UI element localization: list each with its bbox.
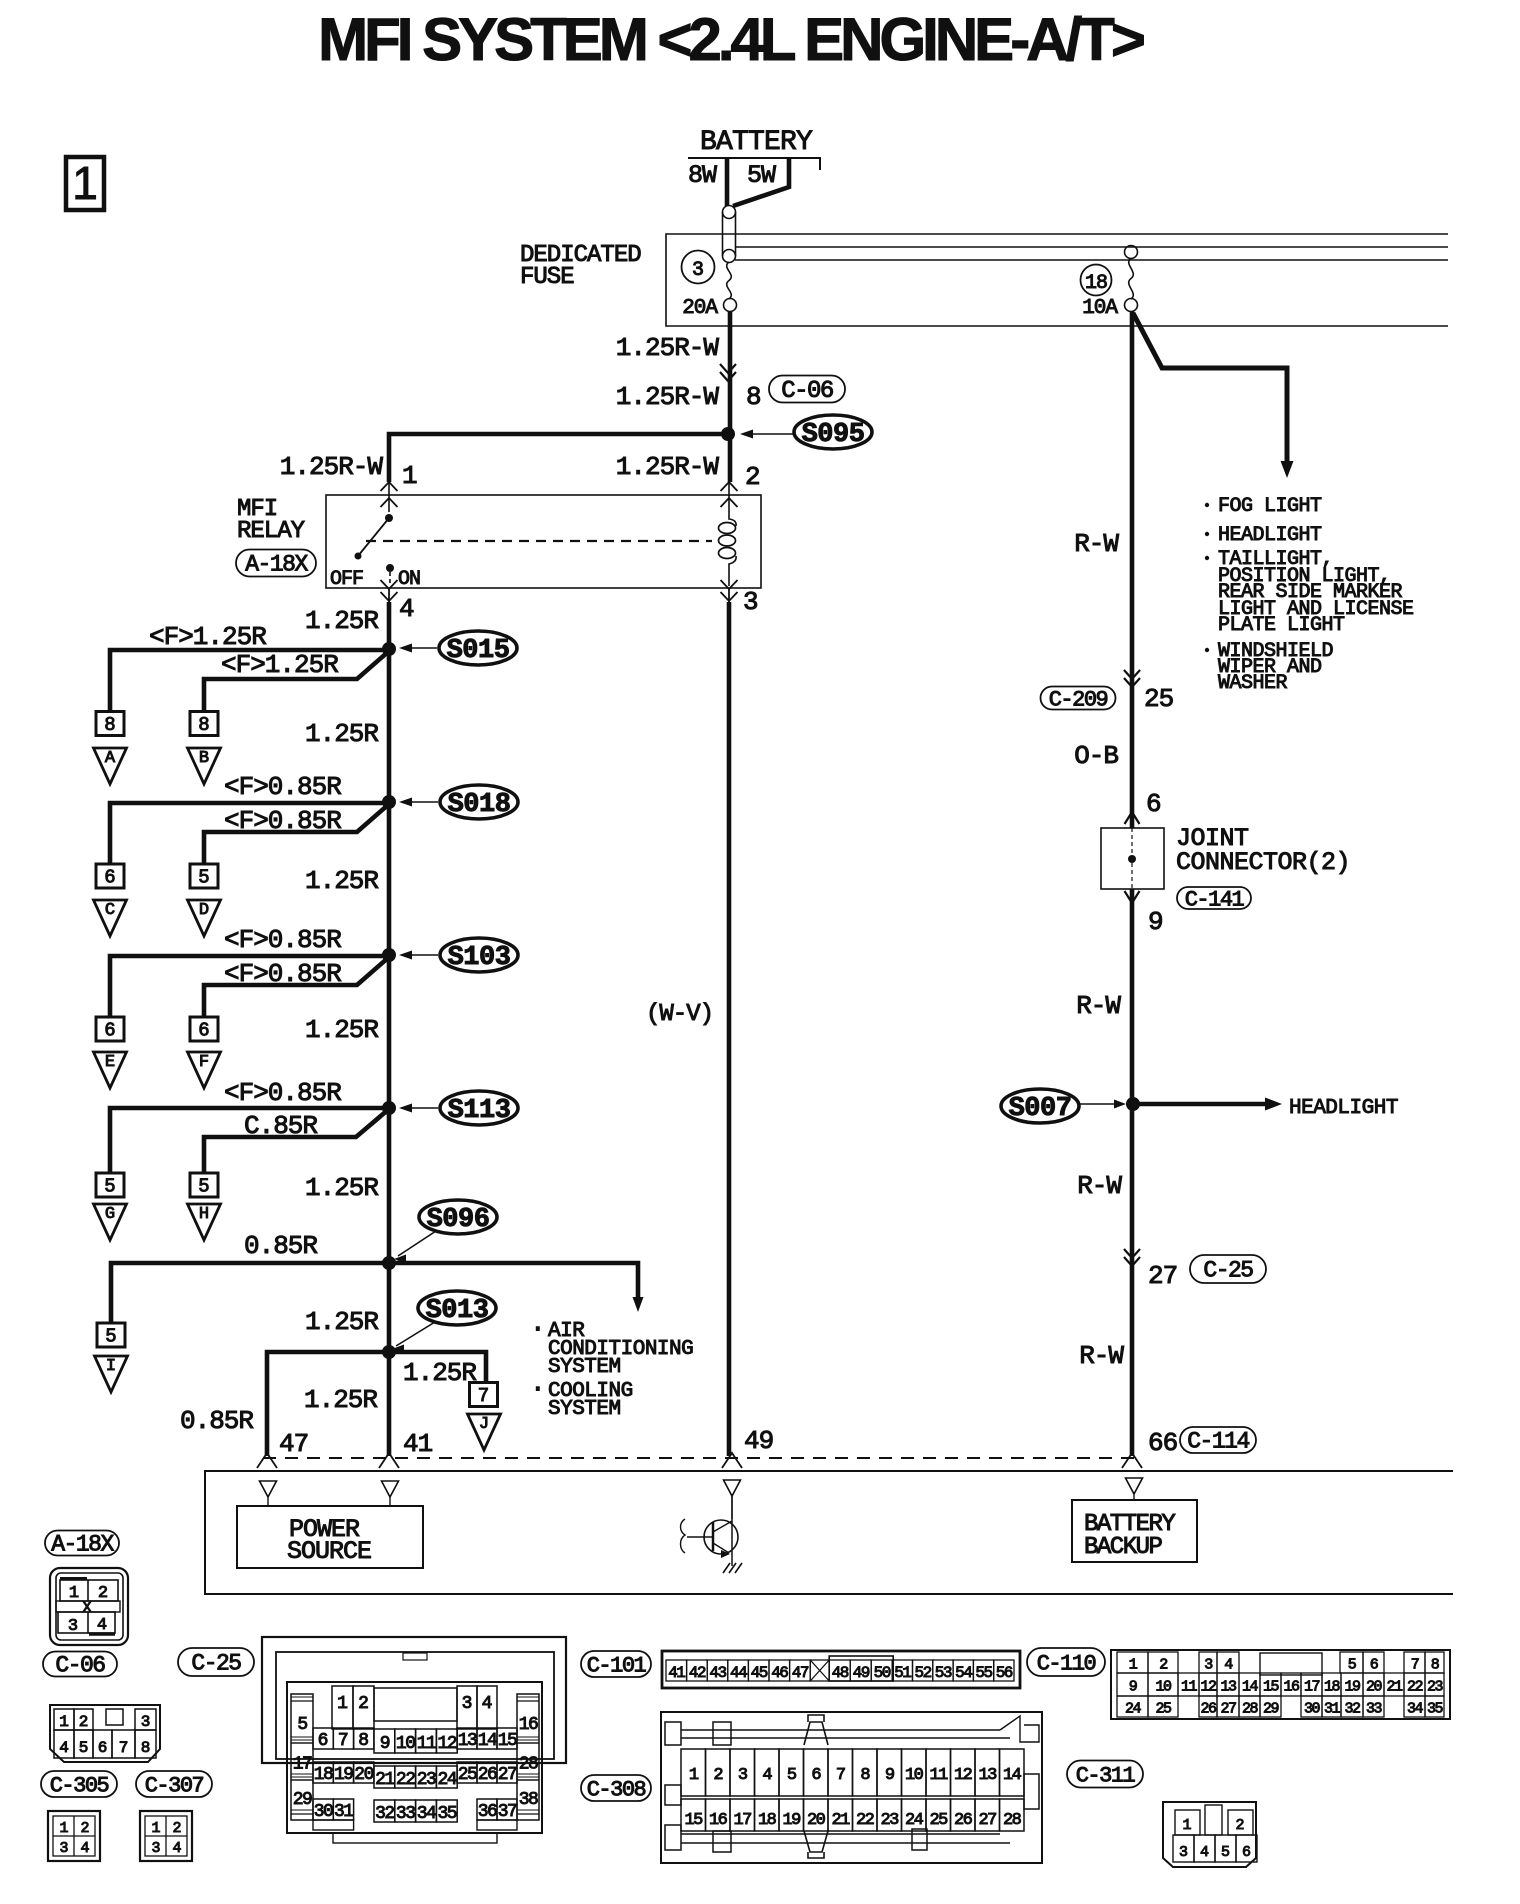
svg-text:1.25R: 1.25R: [305, 1307, 378, 1337]
svg-text:9: 9: [1148, 907, 1164, 937]
svg-text:28: 28: [1003, 1811, 1022, 1830]
svg-text:C-25: C-25: [191, 1651, 241, 1677]
svg-text:7: 7: [1411, 1657, 1419, 1674]
svg-text:G: G: [105, 1205, 115, 1224]
svg-text:51: 51: [894, 1664, 911, 1682]
svg-text:FUSE: FUSE: [520, 264, 574, 291]
svg-text:2: 2: [1235, 1817, 1244, 1834]
svg-text:<F>1.25R: <F>1.25R: [149, 622, 266, 652]
svg-text:6: 6: [104, 1020, 115, 1042]
svg-text:5: 5: [1221, 1844, 1230, 1861]
svg-text:C-308: C-308: [587, 1777, 646, 1802]
svg-text:34: 34: [1407, 1701, 1424, 1718]
svg-text:18: 18: [1085, 272, 1107, 295]
svg-text:11: 11: [1181, 1679, 1198, 1696]
svg-text:2: 2: [172, 1820, 181, 1837]
svg-text:X: X: [82, 1599, 92, 1617]
svg-text:46: 46: [771, 1664, 788, 1682]
svg-text:8W: 8W: [688, 161, 717, 190]
svg-text:4: 4: [80, 1840, 89, 1857]
svg-text:S013: S013: [426, 1296, 489, 1326]
svg-text:·: ·: [530, 1314, 546, 1344]
svg-text:3: 3: [151, 1840, 160, 1857]
svg-text:C-06: C-06: [781, 378, 833, 405]
svg-text:20A: 20A: [682, 297, 718, 320]
svg-text:15: 15: [498, 1731, 517, 1751]
svg-text:F: F: [199, 1053, 209, 1072]
svg-text:10: 10: [1155, 1679, 1172, 1696]
svg-text:66: 66: [1148, 1428, 1177, 1458]
svg-text:RELAY: RELAY: [237, 518, 305, 545]
svg-text:<F>1.25R: <F>1.25R: [221, 650, 338, 680]
svg-text:31: 31: [1324, 1701, 1341, 1718]
svg-text:4: 4: [172, 1840, 181, 1857]
svg-text:19: 19: [334, 1765, 353, 1785]
svg-text:32: 32: [1344, 1701, 1360, 1718]
svg-text:17: 17: [293, 1755, 312, 1775]
svg-text:ON: ON: [398, 568, 420, 591]
svg-text:45: 45: [751, 1664, 768, 1682]
svg-text:1: 1: [59, 1713, 69, 1731]
svg-text:11: 11: [929, 1766, 948, 1785]
svg-text:21: 21: [1386, 1679, 1403, 1696]
svg-text:C-209: C-209: [1049, 687, 1108, 712]
svg-text:35: 35: [437, 1804, 456, 1824]
svg-text:0.85R: 0.85R: [244, 1231, 317, 1261]
svg-text:54: 54: [955, 1664, 972, 1682]
svg-text:27: 27: [498, 1765, 517, 1785]
svg-text:1.25R-W: 1.25R-W: [616, 333, 720, 363]
svg-text:9: 9: [380, 1734, 390, 1754]
svg-text:14: 14: [478, 1731, 497, 1751]
svg-text:1.25R: 1.25R: [305, 866, 378, 896]
svg-text:<F>0.85R: <F>0.85R: [224, 959, 341, 989]
svg-text:4: 4: [1200, 1844, 1209, 1861]
svg-text:8: 8: [358, 1731, 369, 1751]
svg-text:8: 8: [860, 1766, 870, 1785]
svg-text:1.25R: 1.25R: [305, 606, 378, 636]
svg-text:41: 41: [403, 1429, 433, 1459]
svg-text:24: 24: [437, 1770, 456, 1790]
svg-text:18: 18: [1324, 1679, 1341, 1696]
svg-text:22: 22: [856, 1811, 874, 1830]
svg-text:CONNECTOR(2): CONNECTOR(2): [1176, 848, 1350, 877]
svg-text:13: 13: [1220, 1679, 1237, 1696]
svg-text:C-110: C-110: [1037, 1651, 1096, 1676]
svg-text:1: 1: [69, 1584, 79, 1603]
svg-text:A: A: [105, 749, 116, 768]
svg-text:BATTERY: BATTERY: [700, 127, 813, 158]
svg-text:S113: S113: [448, 1096, 511, 1126]
svg-text:22: 22: [396, 1770, 415, 1790]
svg-text:18: 18: [758, 1811, 777, 1830]
svg-text:33: 33: [1366, 1701, 1383, 1718]
svg-text:5: 5: [787, 1766, 797, 1785]
svg-text:12: 12: [437, 1734, 456, 1754]
svg-text:B: B: [199, 749, 209, 768]
svg-text:6: 6: [318, 1731, 329, 1751]
svg-text:49: 49: [853, 1664, 870, 1682]
svg-text:8: 8: [198, 714, 209, 736]
svg-text:C-101: C-101: [587, 1653, 647, 1678]
svg-text:21: 21: [831, 1811, 850, 1830]
svg-text:·: ·: [530, 1374, 546, 1404]
svg-text:1.25R: 1.25R: [304, 1385, 377, 1415]
svg-text:23: 23: [1427, 1679, 1444, 1696]
svg-text:SYSTEM: SYSTEM: [548, 1356, 621, 1379]
svg-text:1.25R: 1.25R: [305, 1015, 378, 1045]
svg-text:23: 23: [880, 1811, 899, 1830]
svg-text:11: 11: [417, 1734, 436, 1754]
svg-text:HEADLIGHT: HEADLIGHT: [1218, 524, 1322, 547]
svg-text:6: 6: [1370, 1657, 1379, 1674]
svg-text:44: 44: [730, 1664, 747, 1682]
svg-text:34: 34: [417, 1804, 436, 1824]
svg-text:A-18X: A-18X: [245, 552, 308, 578]
svg-text:1.25R: 1.25R: [403, 1358, 476, 1388]
svg-text:S103: S103: [448, 943, 511, 973]
svg-text:2: 2: [358, 1694, 369, 1714]
svg-text:13: 13: [458, 1731, 477, 1751]
svg-text:15: 15: [684, 1811, 703, 1830]
svg-text:(W-V): (W-V): [646, 1001, 713, 1028]
svg-text:27: 27: [978, 1811, 996, 1830]
svg-text:1.25R-W: 1.25R-W: [280, 452, 384, 482]
svg-text:28: 28: [1242, 1701, 1259, 1718]
svg-text:1: 1: [689, 1766, 699, 1785]
svg-text:C-307: C-307: [145, 1773, 204, 1798]
svg-text:2: 2: [79, 1713, 89, 1731]
svg-text:1: 1: [151, 1820, 160, 1837]
svg-text:28: 28: [519, 1755, 538, 1775]
svg-text:17: 17: [1304, 1679, 1320, 1696]
svg-text:C-06: C-06: [55, 1653, 105, 1679]
svg-text:1: 1: [402, 461, 418, 491]
svg-text:SOURCE: SOURCE: [287, 1537, 371, 1566]
svg-text:19: 19: [782, 1811, 801, 1830]
svg-text:6: 6: [98, 1739, 108, 1757]
svg-text:2: 2: [713, 1766, 722, 1785]
svg-text:4: 4: [762, 1766, 772, 1785]
svg-text:6: 6: [811, 1766, 821, 1785]
svg-text:26: 26: [1200, 1701, 1217, 1718]
svg-text:3: 3: [738, 1766, 748, 1785]
svg-text:10A: 10A: [1082, 297, 1118, 320]
svg-text:13: 13: [978, 1766, 997, 1785]
svg-text:1: 1: [337, 1694, 348, 1714]
svg-text:C.85R: C.85R: [244, 1111, 317, 1141]
svg-text:D: D: [199, 901, 209, 920]
svg-text:12: 12: [954, 1766, 972, 1785]
svg-text:R-W: R-W: [1079, 1341, 1124, 1371]
svg-text:16: 16: [1283, 1679, 1300, 1696]
svg-text:9: 9: [885, 1766, 895, 1785]
svg-text:BACKUP: BACKUP: [1084, 1534, 1163, 1561]
svg-text:H: H: [199, 1205, 209, 1224]
svg-text:8: 8: [141, 1739, 151, 1757]
svg-text:A-18X: A-18X: [51, 1532, 114, 1558]
svg-text:1.25R-W: 1.25R-W: [616, 452, 720, 482]
svg-text:3: 3: [1204, 1657, 1213, 1674]
svg-text:8: 8: [746, 382, 762, 412]
svg-text:HEADLIGHT: HEADLIGHT: [1289, 1097, 1398, 1120]
svg-text:3: 3: [462, 1694, 473, 1714]
svg-text:5: 5: [105, 1326, 116, 1348]
svg-text:C-141: C-141: [1185, 887, 1245, 912]
svg-text:5: 5: [198, 867, 209, 889]
svg-text:J: J: [479, 1415, 489, 1434]
svg-text:4: 4: [59, 1739, 69, 1757]
svg-text:4: 4: [399, 594, 415, 624]
svg-text:3: 3: [68, 1617, 78, 1636]
svg-text:52: 52: [914, 1664, 931, 1682]
svg-text:3: 3: [743, 587, 759, 617]
svg-text:5: 5: [297, 1715, 307, 1735]
svg-text:35: 35: [1427, 1701, 1444, 1718]
svg-text:E: E: [105, 1053, 115, 1072]
svg-text:23: 23: [417, 1770, 436, 1790]
svg-text:2: 2: [1159, 1657, 1167, 1674]
svg-text:30: 30: [314, 1802, 333, 1822]
svg-text:1.25R: 1.25R: [305, 1173, 378, 1203]
svg-text:10: 10: [396, 1734, 415, 1754]
svg-text:5: 5: [198, 1176, 209, 1198]
svg-text:29: 29: [293, 1790, 312, 1810]
svg-text:24: 24: [905, 1811, 924, 1830]
svg-text:22: 22: [1407, 1679, 1423, 1696]
svg-text:21: 21: [375, 1770, 394, 1790]
svg-text:FOG LIGHT: FOG LIGHT: [1218, 495, 1322, 518]
svg-text:OFF: OFF: [330, 568, 363, 591]
svg-text:4: 4: [1224, 1657, 1233, 1674]
svg-text:6: 6: [104, 867, 115, 889]
svg-text:48: 48: [832, 1664, 849, 1682]
svg-text:31: 31: [334, 1802, 353, 1822]
svg-text:<F>0.85R: <F>0.85R: [224, 806, 341, 836]
svg-text:6: 6: [1146, 789, 1162, 819]
svg-text:27: 27: [1148, 1261, 1177, 1291]
svg-text:5: 5: [104, 1176, 115, 1198]
svg-text:50: 50: [874, 1664, 891, 1682]
svg-text:29: 29: [1263, 1701, 1279, 1718]
svg-text:S018: S018: [448, 790, 511, 820]
svg-text:S095: S095: [802, 420, 865, 450]
svg-text:0.85R: 0.85R: [180, 1406, 253, 1436]
svg-text:26: 26: [478, 1765, 497, 1785]
svg-text:C: C: [105, 901, 115, 920]
svg-text:36: 36: [478, 1802, 497, 1822]
svg-text:7: 7: [119, 1739, 129, 1757]
svg-text:WASHER: WASHER: [1218, 672, 1288, 695]
svg-text:R-W: R-W: [1076, 991, 1121, 1021]
svg-text:3: 3: [59, 1840, 68, 1857]
svg-text:5W: 5W: [747, 161, 776, 190]
svg-text:19: 19: [1344, 1679, 1360, 1696]
svg-text:53: 53: [935, 1664, 952, 1682]
svg-text:C-311: C-311: [1076, 1763, 1136, 1788]
svg-text:S007: S007: [1009, 1094, 1072, 1124]
svg-text:7: 7: [478, 1385, 489, 1407]
svg-text:1.25R: 1.25R: [305, 719, 378, 749]
svg-text:2: 2: [80, 1820, 89, 1837]
svg-text:R-W: R-W: [1077, 1171, 1122, 1201]
svg-text:25: 25: [929, 1811, 948, 1830]
svg-text:26: 26: [954, 1811, 973, 1830]
svg-text:16: 16: [709, 1811, 728, 1830]
svg-text:5: 5: [79, 1739, 89, 1757]
svg-text:7: 7: [836, 1766, 845, 1785]
svg-text:S096: S096: [427, 1205, 490, 1235]
svg-text:<F>0.85R: <F>0.85R: [224, 1078, 341, 1108]
svg-text:MFI SYSTEM <2.4L ENGINE-A/T>: MFI SYSTEM <2.4L ENGINE-A/T>: [318, 6, 1144, 73]
svg-text:43: 43: [709, 1664, 726, 1682]
svg-text:24: 24: [1125, 1701, 1142, 1718]
svg-text:47: 47: [279, 1429, 308, 1459]
svg-text:C-25: C-25: [1203, 1258, 1253, 1284]
svg-text:6: 6: [198, 1020, 209, 1042]
svg-text:4: 4: [97, 1616, 107, 1635]
svg-text:37: 37: [498, 1802, 517, 1822]
svg-text:3: 3: [141, 1713, 151, 1731]
svg-text:20: 20: [354, 1765, 373, 1785]
svg-text:14: 14: [1242, 1679, 1259, 1696]
svg-text:15: 15: [1263, 1679, 1280, 1696]
svg-text:1.25R-W: 1.25R-W: [616, 382, 720, 412]
svg-text:PLATE LIGHT: PLATE LIGHT: [1218, 614, 1345, 637]
svg-text:8: 8: [104, 714, 115, 736]
svg-text:<F>0.85R: <F>0.85R: [224, 772, 341, 802]
svg-text:42: 42: [689, 1664, 706, 1682]
svg-text:27: 27: [1220, 1701, 1236, 1718]
svg-text:C-305: C-305: [50, 1773, 109, 1798]
svg-text:2: 2: [98, 1584, 108, 1603]
svg-text:1: 1: [1129, 1657, 1138, 1674]
svg-text:SYSTEM: SYSTEM: [548, 1398, 621, 1421]
svg-text:12: 12: [1200, 1679, 1216, 1696]
svg-text:1: 1: [72, 157, 98, 209]
svg-text:1: 1: [1182, 1817, 1191, 1834]
svg-text:33: 33: [396, 1804, 415, 1824]
svg-text:20: 20: [1366, 1679, 1383, 1696]
svg-text:18: 18: [314, 1765, 333, 1785]
svg-text:56: 56: [996, 1664, 1013, 1682]
svg-text:41: 41: [668, 1664, 685, 1682]
svg-text:17: 17: [733, 1811, 751, 1830]
svg-text:16: 16: [519, 1715, 538, 1735]
svg-text:38: 38: [519, 1790, 538, 1810]
svg-text:55: 55: [975, 1664, 992, 1682]
svg-text:2: 2: [745, 462, 761, 492]
svg-text:1: 1: [59, 1820, 68, 1837]
svg-text:9: 9: [1129, 1679, 1137, 1696]
svg-text:6: 6: [1242, 1844, 1251, 1861]
svg-text:30: 30: [1304, 1701, 1321, 1718]
svg-text:10: 10: [905, 1766, 924, 1785]
svg-text:3: 3: [1179, 1844, 1188, 1861]
svg-text:14: 14: [1003, 1766, 1022, 1785]
svg-text:25: 25: [458, 1765, 477, 1785]
svg-text:R-W: R-W: [1074, 529, 1119, 559]
svg-text:I: I: [106, 1357, 116, 1376]
svg-text:5: 5: [1348, 1657, 1357, 1674]
svg-text:20: 20: [807, 1811, 826, 1830]
svg-text:25: 25: [1155, 1701, 1172, 1718]
svg-text:S015: S015: [447, 636, 510, 666]
svg-text:O-B: O-B: [1074, 741, 1118, 771]
svg-text:3: 3: [692, 259, 704, 282]
svg-text:4: 4: [482, 1694, 493, 1714]
svg-text:32: 32: [375, 1804, 394, 1824]
svg-text:47: 47: [792, 1664, 809, 1682]
svg-text:8: 8: [1431, 1657, 1440, 1674]
svg-text:C-114: C-114: [1187, 1429, 1249, 1455]
svg-text:<F>0.85R: <F>0.85R: [224, 925, 341, 955]
svg-text:7: 7: [338, 1731, 349, 1751]
svg-text:25: 25: [1144, 684, 1173, 714]
svg-text:49: 49: [744, 1426, 773, 1456]
